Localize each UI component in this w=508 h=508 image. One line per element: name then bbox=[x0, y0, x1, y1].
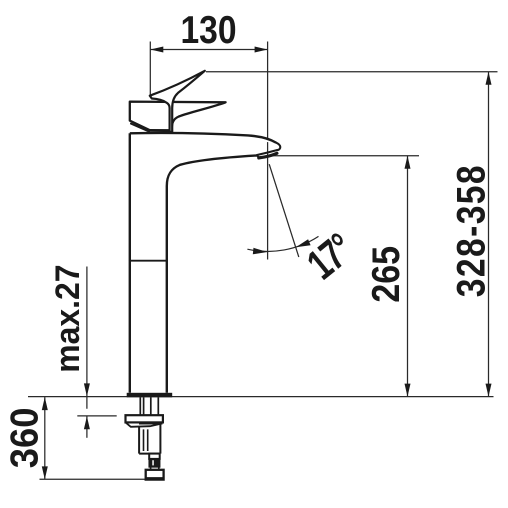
cartridge cover bbox=[130, 102, 226, 131]
extension line right of 130 / angle vertical reference bbox=[267, 42, 269, 260]
dimension line max.27 lower bbox=[86, 416, 88, 438]
dimension line 360 bbox=[44, 397, 46, 479]
spout tip reference line bbox=[273, 155, 419, 157]
left tailpiece bbox=[139, 397, 141, 415]
dimension line 130 bbox=[150, 49, 267, 51]
hose end connector bbox=[146, 470, 164, 480]
aerator crescent bbox=[259, 153, 277, 158]
arrow max27 up bbox=[84, 416, 90, 429]
dimension line 265 bbox=[407, 156, 409, 397]
arrowheads group bbox=[42, 47, 492, 480]
head-body seam thick bbox=[149, 129, 172, 132]
arrow 360 top bbox=[42, 397, 48, 410]
dimension thin lines group bbox=[28, 42, 498, 480]
flange chamfer bbox=[126, 422, 163, 426]
svg-text:328-358: 328-358 bbox=[449, 164, 493, 297]
mounting base plate bbox=[127, 393, 173, 398]
hose nut slit bbox=[152, 460, 154, 465]
clamp tube right edge bbox=[159, 422, 161, 453]
arrow 328-358 top bbox=[486, 72, 492, 85]
svg-text:130: 130 bbox=[180, 8, 236, 52]
faucet drawing group bbox=[130, 71, 280, 393]
hose end connector bottom edge bbox=[147, 477, 163, 480]
deck bottom short line bbox=[77, 415, 116, 417]
lever tip reference line bbox=[206, 71, 498, 73]
body and spout outline bbox=[130, 133, 276, 393]
hose neck bbox=[150, 467, 152, 470]
angle arc bbox=[247, 236, 318, 251]
clamp tube left edge bbox=[138, 427, 140, 454]
svg-text:max.27: max.27 bbox=[49, 265, 87, 373]
arc arrow at diagonal bbox=[296, 239, 311, 247]
spout tip cap and aerator mouth line bbox=[257, 143, 280, 157]
arc arrow at vertical bbox=[253, 248, 268, 255]
lever handle bbox=[150, 71, 205, 132]
clamp slot bbox=[144, 429, 148, 451]
arrow 130 right bbox=[255, 47, 268, 53]
arrow 130 left bbox=[150, 47, 163, 53]
cover bottom second edge bbox=[131, 124, 149, 132]
countertop line bbox=[28, 396, 494, 398]
clamp bottom step bbox=[139, 453, 160, 455]
svg-text:265: 265 bbox=[364, 246, 408, 303]
arrow 328-358 bottom bbox=[486, 384, 492, 397]
hose nut dark block bbox=[149, 459, 160, 467]
hose upper section bbox=[149, 454, 160, 459]
right tailpiece bbox=[150, 397, 152, 415]
svg-text:360: 360 bbox=[3, 408, 46, 469]
dimension line 328-358 bbox=[488, 72, 490, 397]
fastening flange bbox=[126, 415, 163, 422]
column seam line bbox=[130, 260, 167, 262]
arrow max27 down bbox=[84, 383, 90, 396]
arrow 360 bottom bbox=[42, 466, 48, 479]
bottom reference line bbox=[40, 478, 147, 480]
dimension line max.27 upper bbox=[86, 267, 88, 409]
angle line 17deg bbox=[269, 164, 299, 257]
under-counter hardware group bbox=[126, 393, 173, 480]
arrow 265 top bbox=[405, 156, 411, 169]
extension line left of 130 bbox=[149, 42, 151, 96]
arrow 265 bottom bbox=[405, 384, 411, 397]
